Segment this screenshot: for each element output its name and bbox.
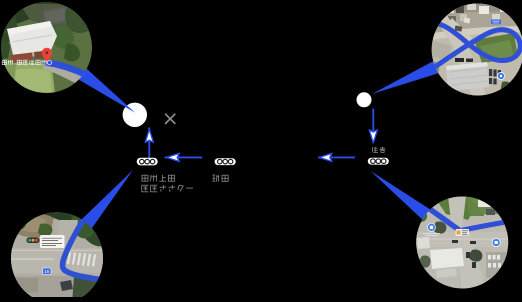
arrowhead left (white filled, blue border): [167, 153, 180, 161]
station pill Shinshu-Ueda Medical Center: [137, 158, 158, 166]
wire transit line: sumiyoshi stop leftward arrow: [318, 156, 355, 158]
inset map circle bottom-left (medical center intersection aerial view): [11, 212, 103, 302]
node destination (left white circle): [123, 103, 147, 127]
arrowhead left 2 (white filled, blue border): [319, 153, 332, 161]
arrowhead up (white filled, blue border): [145, 129, 153, 142]
wire transit line: shinden stop to medical center stop (leftward arrow): [165, 156, 203, 158]
label "Shinden": [212, 175, 219, 182]
label "Shinshu Ueda" line 1: [142, 175, 149, 181]
label "Iryou Center" line 2: [142, 185, 149, 192]
wire callout-wedge from top-left inset to destination node: [79, 69, 135, 113]
wire transit line: origin node down to sumiyoshi stop: [372, 109, 374, 133]
close button x: [166, 114, 175, 123]
wire callout-wedge from top-right inset to origin node: [372, 61, 438, 94]
inset map circle bottom-right (sumiyoshi intersection aerial view): [416, 196, 509, 290]
node origin (right white circle): [357, 92, 372, 107]
station pill Shinden: [215, 158, 236, 165]
label "Sumiyoshi": [372, 147, 378, 153]
wire transit line: medical center stop up to destination node: [148, 127, 150, 157]
wire callout-wedge from bottom-right inset to sumiyoshi stop: [371, 171, 431, 220]
label "(shrine) hakuja jinja" white text in top-left inset: [2, 60, 52, 65]
wire callout-wedge from bottom-left inset to medical-center stop: [82, 170, 133, 228]
inset map circle top-right (highway interchange aerial view): [428, 2, 522, 97]
svg-text:18: 18: [44, 269, 50, 274]
map pin marker (red) in top-left inset: [42, 48, 52, 63]
arrowhead down (white filled, blue border): [369, 130, 377, 143]
station pill Sumiyoshi: [368, 158, 389, 165]
inset map circle top-left (shrine aerial view): [0, 0, 93, 94]
